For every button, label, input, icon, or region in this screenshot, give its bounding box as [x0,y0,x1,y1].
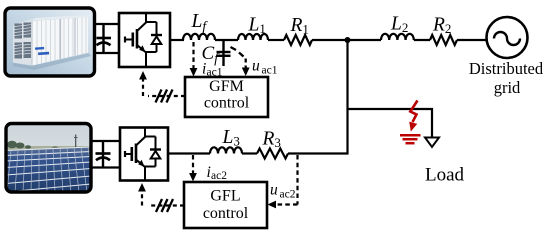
converter U1 (GFM inverter) [119,13,170,67]
fault ground (red) [400,135,421,143]
measurement arrow u_ac1 [231,47,246,69]
wire bus vertical [346,40,348,155]
svg-text:control: control [203,205,249,222]
fault bolt (red) [410,101,417,123]
wire L3 to R3 [242,152,257,154]
GFL control box [184,182,267,228]
capacitor Cdc1 (dc-link) [97,24,112,53]
svg-text:u: u [270,182,278,199]
wire R1 to L2 through node [312,39,381,41]
gate signal GFM to converter1 [148,95,185,97]
inductor L2 [381,34,414,40]
wire load branch [348,109,433,138]
svg-text:u: u [252,58,260,75]
capacitor Cf [217,40,231,66]
node PCC junction [345,37,351,43]
resistor R1 [284,35,312,45]
resistor R3 [257,149,288,159]
wire R3 to bus [288,152,349,154]
gate hash marks 2 [156,199,173,212]
wire L2 to R2 [414,39,430,41]
wire converter2 output [168,152,210,154]
wire dc-link bottom (solar to converter) [91,166,121,168]
wire L1 to R1 [268,39,284,41]
load arrow [425,138,439,148]
measurement arrow i_ac1 [192,42,194,69]
svg-text:ac2: ac2 [211,170,227,182]
converter U2 (GFL inverter) [120,128,168,181]
wire converter1 output [170,39,184,41]
capacitor Cdc2 (dc-link) [96,141,111,168]
svg-text:ac1: ac1 [262,65,278,77]
wire dc-link bottom (battery to converter) [94,52,120,54]
measurement arrow i_ac2 [192,155,194,174]
wire dc-link top (solar to converter) [91,140,121,142]
svg-text:ac2: ac2 [280,189,296,201]
svg-text:grid: grid [494,78,521,97]
resistor R2 [430,35,457,45]
solar PV photo [6,124,95,193]
AC source distributed grid [487,17,528,58]
svg-text:ac1: ac1 [207,67,223,79]
gate hash marks [156,90,173,103]
inductor L1 [238,34,268,40]
wire dc-link top (battery to converter) [94,23,120,25]
wire R2 to grid source [457,39,487,41]
battery storage photo [5,8,95,76]
svg-text:GFL: GFL [210,188,240,205]
svg-text:Distributed: Distributed [469,59,544,78]
wire Lf to L1 [215,39,238,41]
svg-text:control: control [204,95,250,112]
gate signal GFL to converter2 [148,204,184,206]
measurement arrow u_ac2 [296,155,298,205]
GFM control box [185,77,268,117]
inductor L3 [210,147,242,153]
inductor Lf [183,34,215,40]
svg-text:Load: Load [425,165,465,186]
svg-text:GFM: GFM [209,78,244,95]
